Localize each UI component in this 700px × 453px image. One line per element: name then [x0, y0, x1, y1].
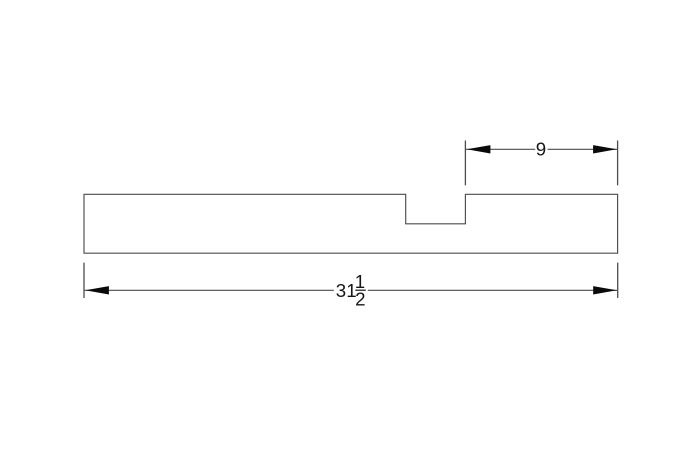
dimension 9: dimension line left segment	[466, 148, 535, 150]
dimension 9: right arrowhead	[593, 145, 617, 153]
dimension 31 1/2: dimension line right segment	[368, 289, 617, 291]
svg-text:2: 2	[355, 289, 365, 310]
dimension 31 1/2: dimension line left segment	[85, 289, 334, 291]
dimension 31 1/2: left extension line	[83, 263, 85, 298]
part outline: notched bar	[84, 194, 618, 253]
svg-text:31: 31	[336, 280, 357, 301]
svg-text:9: 9	[536, 138, 546, 159]
dimension 31 1/2: fraction bar	[355, 289, 366, 291]
dimension 9: left arrowhead	[467, 145, 491, 153]
dimension 9: right extension line	[617, 141, 619, 186]
dimension 9: left extension line	[464, 141, 466, 186]
dimension 31 1/2: right extension line	[617, 263, 619, 298]
dimension 9: dimension line right segment	[548, 148, 618, 150]
dimension 31 1/2: right arrowhead	[593, 286, 617, 294]
dimension 31 1/2: left arrowhead	[85, 286, 109, 294]
